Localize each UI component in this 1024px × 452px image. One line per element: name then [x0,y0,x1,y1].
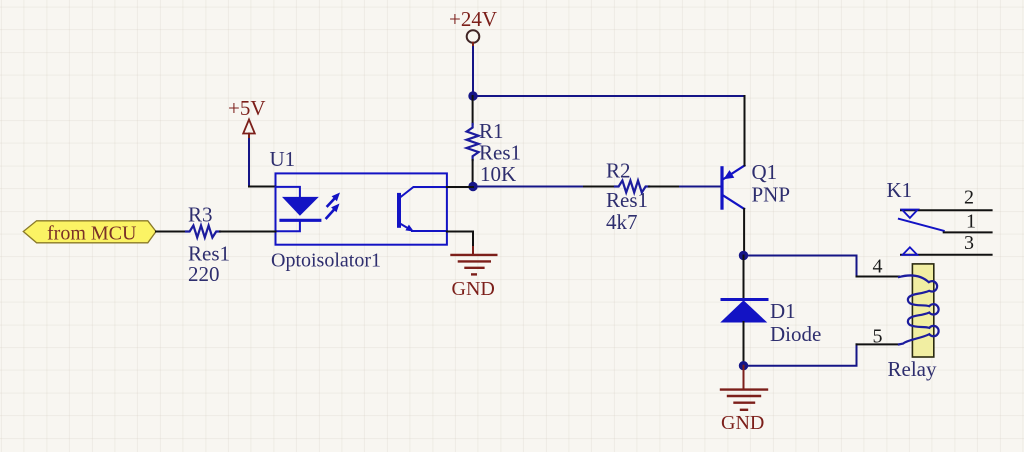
Q1 collector pin down [743,209,745,256]
U1 LED triangle [282,197,319,216]
wire node B to R2 [473,186,584,188]
svg-text:2: 2 [964,187,974,209]
Q1 emitter pin up [744,96,746,166]
K1 pin 4 [857,276,900,278]
K1 pin 3 [901,254,992,256]
U1 phototransistor collector [400,187,447,198]
wire R2 to Q1 base [680,186,721,188]
wire port to R3 [156,231,186,233]
K1 pin 1 [944,231,992,233]
svg-text:10K: 10K [480,162,516,186]
K1 pin 2 [901,209,992,211]
svg-text:from MCU: from MCU [47,223,137,245]
U1 LED cathode bar [281,219,320,222]
K1 pin 5 [857,343,900,345]
U1 LED lead bottom [276,222,300,232]
svg-text:R3: R3 [188,203,213,227]
svg-text:4k7: 4k7 [606,210,638,234]
resistor R3 [186,203,249,287]
power +5V [228,96,266,140]
svg-text:220: 220 [188,262,220,286]
U1 phototransistor emitter [400,224,447,232]
svg-text:Relay: Relay [888,357,937,381]
transistor Q1 [722,160,790,209]
wire node A to Q1 emitter rail [473,95,745,97]
diode D1 [722,256,822,366]
K1 NC contact arrow [903,247,918,255]
svg-text:K1: K1 [887,178,913,202]
U1 LED lead top [276,187,300,197]
svg-text:D1: D1 [770,299,796,323]
K1 coil winding [899,275,939,344]
U1 phototransistor base bar [397,195,401,226]
wire node C to relay coil pin4 [744,256,857,277]
svg-text:Res1: Res1 [479,141,521,165]
svg-text:PNP: PNP [752,183,791,207]
U1 emission arrow 1 [328,193,341,207]
svg-text:Diode: Diode [770,322,821,346]
U1 pin 3 emitter out [447,232,473,248]
svg-text:U1: U1 [270,147,296,171]
K1 coil body [912,264,933,357]
U1 pin 1 anode [249,186,276,188]
U1 pin 4 collector out [447,186,473,188]
svg-text:Optoisolator1: Optoisolator1 [271,250,381,272]
svg-text:1: 1 [966,211,976,233]
port from MCU [23,221,156,245]
ground GND2 under D1 [721,366,767,434]
svg-text:+5V: +5V [228,96,266,120]
node A junction [468,91,477,100]
svg-text:R2: R2 [606,159,631,183]
wire +5V to opto pin1 [249,139,252,187]
svg-text:R1: R1 [479,119,504,143]
resistor R1 [467,96,521,187]
wire +24V to node A [472,47,474,96]
svg-text:5: 5 [873,326,883,348]
svg-text:GND: GND [452,278,495,300]
K1 contact throw [899,219,944,231]
svg-text:3: 3 [964,232,974,254]
svg-text:Q1: Q1 [752,160,778,184]
svg-text:+24V: +24V [449,7,497,31]
wire node D to relay coil pin5 [744,344,857,365]
svg-text:Res1: Res1 [606,188,648,212]
op-amp U1 optoisolator body [270,147,447,272]
node B junction [468,182,477,191]
resistor R2 [584,159,680,235]
svg-text:GND: GND [721,412,764,434]
power +24V [449,7,497,48]
U1 pin 2 cathode [249,231,276,233]
node C junction [739,251,748,260]
svg-text:4: 4 [873,256,883,278]
U1 emission arrow 2 [327,204,340,219]
K1 common contact arrow [902,210,918,218]
node D junction [739,361,748,370]
ground GND1 under opto [452,247,497,300]
